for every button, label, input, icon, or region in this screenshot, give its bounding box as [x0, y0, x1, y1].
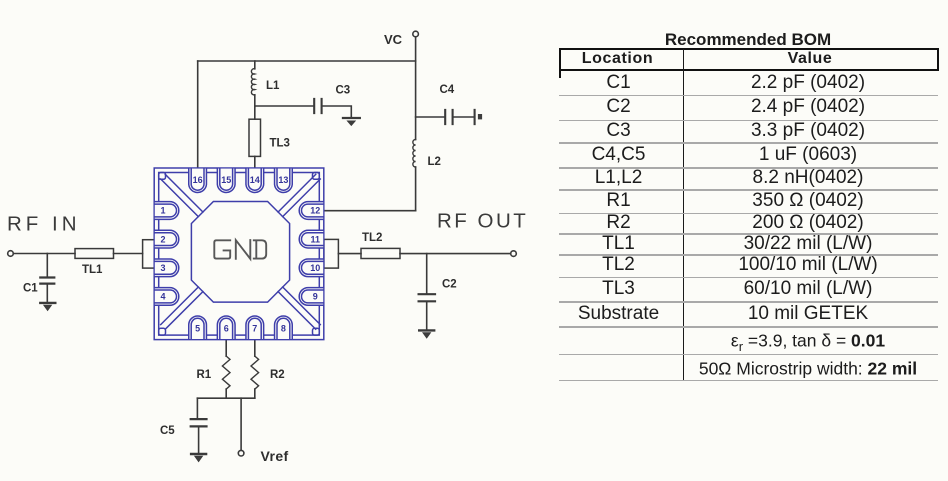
corner mark top-left: [159, 173, 166, 180]
pin 2: [155, 230, 179, 248]
wire L1 to node: [254, 95, 256, 107]
wire junction to C1: [46, 254, 48, 278]
wire R2 to junction: [254, 389, 256, 398]
pin 12: [299, 202, 323, 220]
svg-text:VC: VC: [384, 32, 403, 47]
svg-text:2: 2: [160, 234, 165, 244]
node RF OUT terminal: [511, 251, 517, 257]
svg-text:RF OUT: RF OUT: [437, 210, 528, 233]
wire VC vertical: [415, 37, 417, 211]
svg-text:R2: R2: [270, 369, 285, 381]
svg-text:C3: C3: [336, 85, 351, 97]
pin 6: [217, 316, 235, 339]
wire TL2 to RF OUT terminal: [400, 253, 511, 255]
pin 11: [299, 230, 323, 248]
pin 4: [155, 288, 179, 306]
capacitor C3: [314, 99, 321, 113]
svg-text:10: 10: [310, 263, 320, 273]
inductor L1: [251, 69, 254, 95]
ground (C1): [40, 302, 55, 304]
pad (pins 10-11) right: [324, 239, 339, 268]
wire top bus horizontal: [198, 60, 416, 62]
wire L2 to pin12: [324, 210, 416, 212]
pin 7: [246, 316, 264, 339]
transmission line TL3: [249, 119, 261, 156]
corner spoke top-right: [278, 174, 320, 216]
wire TL1 to pad: [114, 253, 143, 255]
svg-text:1: 1: [160, 206, 165, 216]
resistor R1: [222, 356, 230, 389]
wire C5 to ground: [198, 427, 200, 453]
pin 3: [155, 259, 179, 277]
wire pin6 to R1: [225, 340, 227, 357]
wire node to TL3: [254, 107, 256, 120]
svg-text:5: 5: [195, 324, 200, 334]
svg-text:C5: C5: [160, 425, 175, 437]
wire pad to TL2: [338, 253, 361, 255]
svg-text:7: 7: [252, 324, 257, 334]
wire junction to Vref: [240, 398, 242, 450]
svg-text:TL3: TL3: [270, 138, 290, 150]
wire bus to pin16: [197, 61, 199, 169]
pad (pins 2-3) left: [143, 240, 155, 268]
wire C1 to ground: [46, 285, 48, 302]
ground paddle octagon: [191, 202, 289, 303]
svg-text:C1: C1: [23, 283, 38, 295]
svg-text:C2: C2: [442, 279, 457, 291]
GND paddle label letter G: [214, 240, 230, 258]
svg-text:15: 15: [221, 175, 231, 185]
wire VC to C4: [416, 116, 445, 118]
corner mark top-right: [313, 173, 320, 180]
GND paddle label letter N: [236, 240, 251, 259]
pin 13: [275, 169, 293, 193]
pin 14: [246, 169, 264, 193]
svg-text:8: 8: [281, 324, 286, 334]
node Vref terminal: [238, 450, 244, 456]
svg-text:L1: L1: [266, 80, 280, 92]
svg-text:6: 6: [224, 324, 229, 334]
wire C3 to ground: [323, 106, 352, 117]
node VC terminal: [413, 31, 419, 37]
corner mark bottom-left: [159, 328, 166, 335]
wire node to C3: [255, 105, 314, 107]
IC inner frame: [159, 173, 320, 336]
svg-text:RF IN: RF IN: [7, 213, 81, 236]
corner spoke bottom-left: [161, 287, 203, 329]
wire pin7 to R2: [254, 340, 256, 357]
svg-text:9: 9: [313, 292, 318, 302]
svg-text:R1: R1: [197, 369, 212, 381]
wire TL3 to pin14: [254, 156, 256, 168]
pin 16: [189, 169, 207, 193]
wire C4 to stub: [454, 116, 474, 118]
wire C2 to ground: [426, 302, 428, 329]
pin 8: [275, 316, 293, 339]
svg-text:4: 4: [160, 292, 165, 302]
wire R1 to junction: [225, 389, 227, 398]
capacitor C2: [419, 294, 435, 301]
pin 9: [299, 288, 323, 306]
ground (C2): [419, 329, 434, 331]
svg-text:TL2: TL2: [362, 232, 382, 244]
wire bus to L1: [254, 61, 256, 69]
connector stub (C4 right): [474, 110, 476, 124]
svg-text:TL1: TL1: [82, 264, 103, 276]
ground (C5): [191, 453, 206, 455]
corner spoke top-left: [161, 174, 203, 216]
transmission line TL1: [75, 249, 114, 259]
wire junction to C2: [426, 254, 428, 294]
pin 1: [155, 202, 179, 220]
pin 5: [189, 316, 207, 339]
svg-text:13: 13: [278, 175, 288, 185]
node RF IN terminal: [8, 251, 14, 257]
ground (C3): [343, 117, 360, 119]
IC U1 QFN-16 outer body: [154, 168, 324, 340]
inductor L2: [413, 140, 416, 168]
capacitor C4: [445, 110, 452, 124]
transmission line TL2: [361, 248, 400, 258]
corner mark bottom-right: [313, 328, 320, 335]
svg-text:C4: C4: [440, 84, 455, 96]
svg-text:L2: L2: [428, 156, 441, 168]
svg-text:11: 11: [311, 234, 321, 244]
capacitor C1: [40, 278, 54, 284]
svg-text:3: 3: [160, 263, 165, 273]
wire RFIN to TL1: [13, 253, 75, 255]
GND paddle label letter D: [254, 240, 266, 258]
svg-text:12: 12: [310, 206, 320, 216]
wire bottom junction horizontal: [197, 397, 254, 399]
capacitor C5: [191, 419, 207, 426]
svg-text:14: 14: [250, 175, 260, 185]
svg-text:Vref: Vref: [261, 448, 289, 464]
corner spoke bottom-right: [278, 287, 320, 329]
svg-text:16: 16: [193, 175, 203, 185]
pin 10: [299, 259, 323, 277]
wire junction to C5: [196, 398, 198, 418]
resistor R2: [251, 356, 259, 389]
pin 15: [217, 169, 235, 193]
